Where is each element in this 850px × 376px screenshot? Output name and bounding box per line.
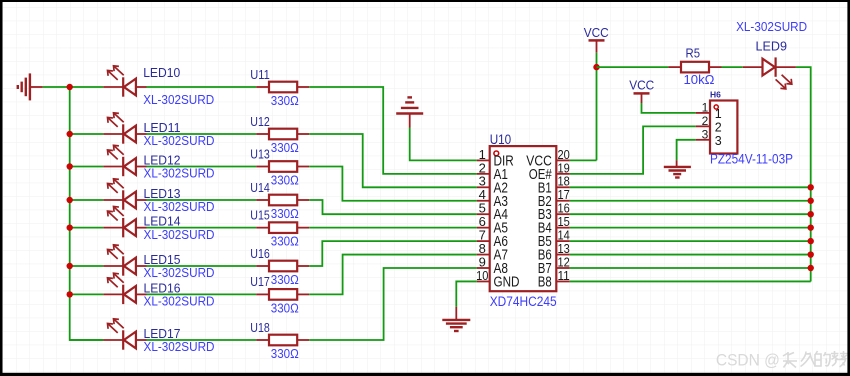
wire bus to LED16 bbox=[70, 293, 104, 295]
pin 10 stub U10 bbox=[477, 280, 490, 282]
node VCC junction bbox=[593, 64, 599, 70]
pin label B6 bbox=[538, 248, 552, 264]
pin number 7 bbox=[479, 228, 486, 243]
svg-text:U12: U12 bbox=[250, 114, 269, 129]
wire U12 to U10 bbox=[309, 134, 477, 187]
label U16 bbox=[250, 246, 269, 261]
label 330&#937; row 7 bbox=[271, 300, 299, 315]
resistor U15 bbox=[256, 222, 309, 233]
label XL-302SURD bbox=[144, 339, 215, 354]
svg-text:330Ω: 330Ω bbox=[271, 206, 299, 221]
label XL-302SURD (LED9) bbox=[736, 19, 807, 34]
wire bus to LED14 bbox=[70, 227, 104, 229]
pin number 3 bbox=[479, 174, 486, 189]
wire bus to LED13 bbox=[70, 199, 104, 201]
wire LED10 to U11 bbox=[147, 86, 257, 88]
wire bus to LED15 bbox=[70, 265, 104, 267]
wire U13 to U10 bbox=[309, 167, 477, 201]
wire ground to bus junction bbox=[43, 86, 70, 88]
svg-text:330Ω: 330Ω bbox=[271, 93, 299, 108]
pin number 18 bbox=[557, 174, 569, 189]
pin label B8 bbox=[538, 274, 552, 290]
wire U15 to U10 bbox=[309, 227, 477, 229]
svg-text:R5: R5 bbox=[686, 46, 701, 61]
svg-text:330Ω: 330Ω bbox=[271, 234, 299, 249]
label H6 bbox=[710, 90, 721, 100]
led LED10 bbox=[103, 66, 146, 97]
wire B3 pin 16 bbox=[570, 213, 811, 215]
resistor U11 bbox=[256, 82, 309, 93]
pin label A5 bbox=[494, 221, 509, 237]
wire U11 to U10 bbox=[309, 87, 477, 174]
pin number 2 bbox=[479, 160, 486, 175]
pin label A3 bbox=[494, 194, 509, 210]
pin number 16 bbox=[557, 201, 569, 216]
svg-text:330Ω: 330Ω bbox=[271, 272, 299, 287]
pin number 1 H6 outside bbox=[702, 101, 709, 115]
ground (H6) bbox=[664, 160, 691, 177]
svg-text:330Ω: 330Ω bbox=[271, 140, 299, 155]
wire VCC junction to R5 bbox=[597, 66, 669, 68]
wire LED17 to U18 bbox=[147, 339, 257, 341]
label VCC (H6) bbox=[629, 78, 654, 93]
svg-text:XL-302SURD: XL-302SURD bbox=[143, 92, 214, 107]
pin 3 stub H6 bbox=[696, 139, 710, 141]
pin number 10 bbox=[476, 268, 488, 283]
pin number 20 bbox=[557, 147, 569, 162]
node junction row 1 bbox=[67, 84, 73, 90]
pin number 17 bbox=[557, 187, 569, 202]
node junction row 3 bbox=[67, 163, 73, 169]
node junction row 4 bbox=[67, 197, 73, 203]
label LED9 bbox=[756, 39, 788, 54]
node junction row 7 bbox=[67, 291, 73, 297]
label 330&#937; row 2 bbox=[271, 140, 299, 155]
pin 18 stub U10 bbox=[557, 186, 570, 188]
op-amp U10 XD74HC245 body bbox=[490, 146, 557, 291]
pin 3 stub U10 bbox=[477, 186, 490, 188]
wire B8 pin 11 bbox=[570, 280, 811, 282]
led LED15 bbox=[103, 245, 146, 276]
pin 15 stub U10 bbox=[557, 227, 570, 229]
wire bus to LED11 bbox=[70, 133, 104, 135]
node junction row 2 bbox=[67, 131, 73, 137]
pin label VCC bbox=[526, 153, 552, 169]
pin 17 stub U10 bbox=[557, 200, 570, 202]
svg-text:XL-302SURD: XL-302SURD bbox=[144, 166, 215, 181]
pin label B4 bbox=[538, 221, 552, 237]
label 330&#937; row 5 bbox=[271, 234, 299, 249]
svg-text:PZ254V-11-03P: PZ254V-11-03P bbox=[710, 151, 793, 166]
pin label 2 H6 inside bbox=[715, 121, 722, 135]
label XL-302SURD bbox=[144, 199, 215, 214]
label U15 bbox=[250, 207, 269, 222]
wire bus to LED17 bbox=[70, 339, 104, 341]
wire LED11 to U12 bbox=[147, 133, 257, 135]
pin 8 stub U10 bbox=[477, 254, 490, 256]
led LED13 bbox=[103, 179, 146, 210]
label U11 bbox=[250, 67, 269, 82]
pin 9 stub U10 bbox=[477, 267, 490, 269]
svg-text:2: 2 bbox=[702, 114, 709, 128]
svg-text:B8: B8 bbox=[538, 274, 552, 290]
pin 11 stub U10 bbox=[557, 280, 570, 282]
label U13 bbox=[250, 146, 269, 161]
pin 12 stub U10 bbox=[557, 267, 570, 269]
wire U14 to U10 bbox=[309, 200, 477, 214]
pin label A6 bbox=[494, 234, 509, 250]
pin 1 marker H6 bbox=[714, 105, 718, 109]
pin label B2 bbox=[538, 194, 552, 210]
resistor U14 bbox=[256, 195, 309, 206]
svg-text:VCC: VCC bbox=[629, 78, 654, 93]
wire B1 pin 18 bbox=[570, 186, 811, 188]
pin number 4 bbox=[479, 187, 486, 202]
svg-text:LED9: LED9 bbox=[756, 39, 788, 54]
svg-text:330Ω: 330Ω bbox=[271, 173, 299, 188]
label U18 bbox=[250, 320, 269, 335]
label U14 bbox=[250, 180, 269, 195]
power VCC (H6) bbox=[634, 93, 650, 103]
pin 14 stub U10 bbox=[557, 240, 570, 242]
label LED17 bbox=[144, 326, 181, 341]
label LED10 bbox=[143, 65, 180, 80]
ground (U10 GND) bbox=[442, 307, 470, 331]
svg-text:XL-302SURD: XL-302SURD bbox=[144, 294, 215, 309]
label LED16 bbox=[144, 280, 181, 295]
label LED13 bbox=[144, 186, 181, 201]
led LED11 bbox=[103, 113, 146, 144]
wire ground to pin1 DIR bbox=[410, 128, 477, 161]
pin label B1 bbox=[538, 180, 552, 196]
svg-text:LED10: LED10 bbox=[143, 65, 180, 80]
svg-text:U10: U10 bbox=[490, 132, 512, 147]
wire VCC to pin20 bbox=[570, 53, 597, 161]
label LED12 bbox=[144, 153, 181, 168]
svg-text:XL-302SURD: XL-302SURD bbox=[144, 133, 215, 148]
node junction pin 17 bbox=[808, 198, 814, 204]
pin 13 stub U10 bbox=[557, 254, 570, 256]
node junction pin 16 bbox=[808, 211, 814, 217]
pin label A8 bbox=[494, 261, 509, 277]
wire H6 pin 3 to ground bbox=[677, 140, 696, 160]
pin 6 stub U10 bbox=[477, 227, 490, 229]
svg-text:XL-302SURD: XL-302SURD bbox=[144, 265, 215, 280]
pin number 14 bbox=[557, 228, 569, 243]
wire U18 to U10 bbox=[309, 268, 477, 340]
pin number 15 bbox=[557, 214, 569, 229]
pin label B7 bbox=[538, 261, 552, 277]
label XL-302SURD bbox=[144, 133, 215, 148]
svg-text:XD74HC245: XD74HC245 bbox=[490, 294, 557, 309]
connector H6 body bbox=[710, 101, 737, 154]
resistor U12 bbox=[256, 129, 309, 140]
wire bus to LED10 bbox=[70, 86, 104, 88]
pin number 6 bbox=[479, 214, 486, 229]
node junction row 5 bbox=[67, 224, 73, 230]
pin label 3 H6 inside bbox=[715, 134, 722, 148]
svg-text:XL-302SURD: XL-302SURD bbox=[144, 339, 215, 354]
svg-text:H6: H6 bbox=[710, 90, 721, 100]
svg-text:VCC: VCC bbox=[584, 25, 609, 40]
label R5 bbox=[686, 46, 701, 61]
svg-text:U18: U18 bbox=[250, 320, 269, 335]
node junction pin 12 bbox=[808, 265, 814, 271]
pin 1 stub H6 bbox=[696, 112, 710, 114]
label U12 bbox=[250, 114, 269, 129]
label XD74HC245 bbox=[490, 294, 557, 309]
label LED11 bbox=[144, 120, 181, 135]
wire LED15 to U16 bbox=[147, 265, 257, 267]
node junction pin 18 bbox=[808, 184, 814, 190]
pin number 9 bbox=[479, 254, 486, 269]
ground (inverted, DIR) bbox=[396, 97, 423, 127]
pin number 13 bbox=[557, 241, 569, 256]
wire B7 pin 12 bbox=[570, 267, 811, 269]
pin 4 stub U10 bbox=[477, 200, 490, 202]
watermark CSDN bbox=[716, 350, 848, 369]
resistor U16 bbox=[256, 261, 309, 272]
label U17 bbox=[250, 274, 269, 289]
label 330&#937; row 3 bbox=[271, 173, 299, 188]
pin 2 stub H6 bbox=[696, 125, 710, 127]
power VCC (top) bbox=[589, 40, 605, 52]
pin number 19 bbox=[557, 160, 569, 175]
pin number 2 H6 outside bbox=[702, 114, 709, 128]
label XL-302SURD bbox=[144, 227, 215, 242]
wire VCC to H6 pin 1 bbox=[642, 103, 696, 113]
pin 20 stub U10 bbox=[557, 159, 570, 161]
pin number 3 H6 outside bbox=[702, 128, 709, 142]
pin 2 stub U10 bbox=[477, 173, 490, 175]
svg-text:U11: U11 bbox=[250, 67, 269, 82]
pin 5 stub U10 bbox=[477, 213, 490, 215]
label LED14 bbox=[144, 214, 181, 229]
label XL-302SURD bbox=[143, 92, 214, 107]
pin label B3 bbox=[538, 207, 552, 223]
led LED17 bbox=[103, 319, 146, 350]
resistor U18 bbox=[256, 335, 309, 346]
pin number 1 bbox=[479, 147, 486, 162]
label 330&#937; row 6 bbox=[271, 272, 299, 287]
node junction pin 14 bbox=[808, 238, 814, 244]
label 330&#937; row 8 bbox=[271, 346, 299, 361]
svg-text:XL-302SURD: XL-302SURD bbox=[144, 199, 215, 214]
wire GND pin10 down bbox=[456, 281, 477, 306]
resistor U13 bbox=[256, 161, 309, 172]
svg-text:XL-302SURD: XL-302SURD bbox=[736, 19, 807, 34]
svg-text:1: 1 bbox=[715, 107, 722, 121]
led LED16 bbox=[103, 273, 146, 304]
pin label GND bbox=[494, 274, 520, 290]
corner row 8 bbox=[0, 0, 1, 1]
svg-text:CSDN @: CSDN @ bbox=[716, 350, 780, 369]
resistor R5 bbox=[668, 62, 721, 73]
label 330&#937; row 1 bbox=[271, 93, 299, 108]
wire LED9 to B bus bbox=[796, 67, 811, 281]
led LED9 bbox=[743, 57, 796, 89]
pin number 11 bbox=[557, 268, 569, 283]
pin number 12 bbox=[557, 254, 569, 269]
wire B4 pin 15 bbox=[570, 227, 811, 229]
label XL-302SURD bbox=[144, 294, 215, 309]
svg-text:330Ω: 330Ω bbox=[271, 300, 299, 315]
svg-text:U17: U17 bbox=[250, 274, 269, 289]
wire B6 pin 13 bbox=[570, 254, 811, 256]
svg-text:U16: U16 bbox=[250, 246, 269, 261]
svg-text:11: 11 bbox=[557, 268, 569, 283]
svg-text:10kΩ: 10kΩ bbox=[684, 72, 715, 87]
svg-text:1: 1 bbox=[702, 101, 709, 115]
pin label A2 bbox=[494, 180, 509, 196]
svg-text:330Ω: 330Ω bbox=[271, 346, 299, 361]
label 330&#937; row 4 bbox=[271, 206, 299, 221]
svg-text:3: 3 bbox=[702, 128, 709, 142]
svg-text:2: 2 bbox=[715, 121, 722, 135]
svg-text:10: 10 bbox=[476, 268, 488, 283]
label PZ254V-11-03P bbox=[710, 151, 793, 166]
node junction row 6 bbox=[67, 263, 73, 269]
svg-text:GND: GND bbox=[494, 274, 520, 290]
pin number 8 bbox=[479, 241, 486, 256]
pin 19 stub U10 bbox=[557, 173, 570, 175]
wire U16 to U10 bbox=[309, 241, 477, 266]
pin label DIR bbox=[494, 153, 514, 169]
wire R5 to LED9 bbox=[722, 66, 743, 68]
pin label 1 H6 inside bbox=[715, 107, 722, 121]
pin label OE# bbox=[529, 167, 552, 183]
wire B2 pin 17 bbox=[570, 200, 811, 202]
label VCC bbox=[584, 25, 609, 40]
pin 1 stub U10 bbox=[477, 159, 490, 161]
pin label A7 bbox=[494, 248, 509, 264]
pin 1 marker U10 bbox=[494, 151, 499, 156]
wire OE# to H6 pin 2 bbox=[570, 126, 696, 174]
wire cathode bus vertical bbox=[69, 86, 71, 341]
wire bus bottom to LED17 bbox=[70, 339, 104, 341]
wire LED12 to U13 bbox=[147, 166, 257, 168]
led LED12 bbox=[103, 145, 146, 176]
node junction pin 15 bbox=[808, 224, 814, 230]
label 10k&#937; bbox=[684, 72, 715, 87]
svg-text:3: 3 bbox=[715, 134, 722, 148]
pin 7 stub U10 bbox=[477, 240, 490, 242]
wire LED14 to U15 bbox=[147, 227, 257, 229]
svg-text:XL-302SURD: XL-302SURD bbox=[144, 227, 215, 242]
wire LED16 to U17 bbox=[147, 293, 257, 295]
svg-text:U15: U15 bbox=[250, 207, 269, 222]
label XL-302SURD bbox=[144, 166, 215, 181]
ground bbox=[18, 73, 43, 100]
wire bus to LED12 bbox=[70, 166, 104, 168]
pin label A4 bbox=[494, 207, 509, 223]
svg-text:U14: U14 bbox=[250, 180, 269, 195]
pin 16 stub U10 bbox=[557, 213, 570, 215]
wire LED13 to U14 bbox=[147, 199, 257, 201]
wire U17 to U10 bbox=[309, 255, 477, 295]
label XL-302SURD bbox=[144, 265, 215, 280]
pin number 5 bbox=[479, 201, 486, 216]
label LED15 bbox=[144, 252, 181, 267]
led LED14 bbox=[103, 206, 146, 237]
resistor U17 bbox=[256, 289, 309, 300]
svg-text:U13: U13 bbox=[250, 146, 269, 161]
label U10 bbox=[490, 132, 512, 147]
node junction pin 13 bbox=[808, 251, 814, 257]
wire B5 pin 14 bbox=[570, 240, 811, 242]
pin label A1 bbox=[494, 167, 509, 183]
pin label B5 bbox=[538, 234, 552, 250]
